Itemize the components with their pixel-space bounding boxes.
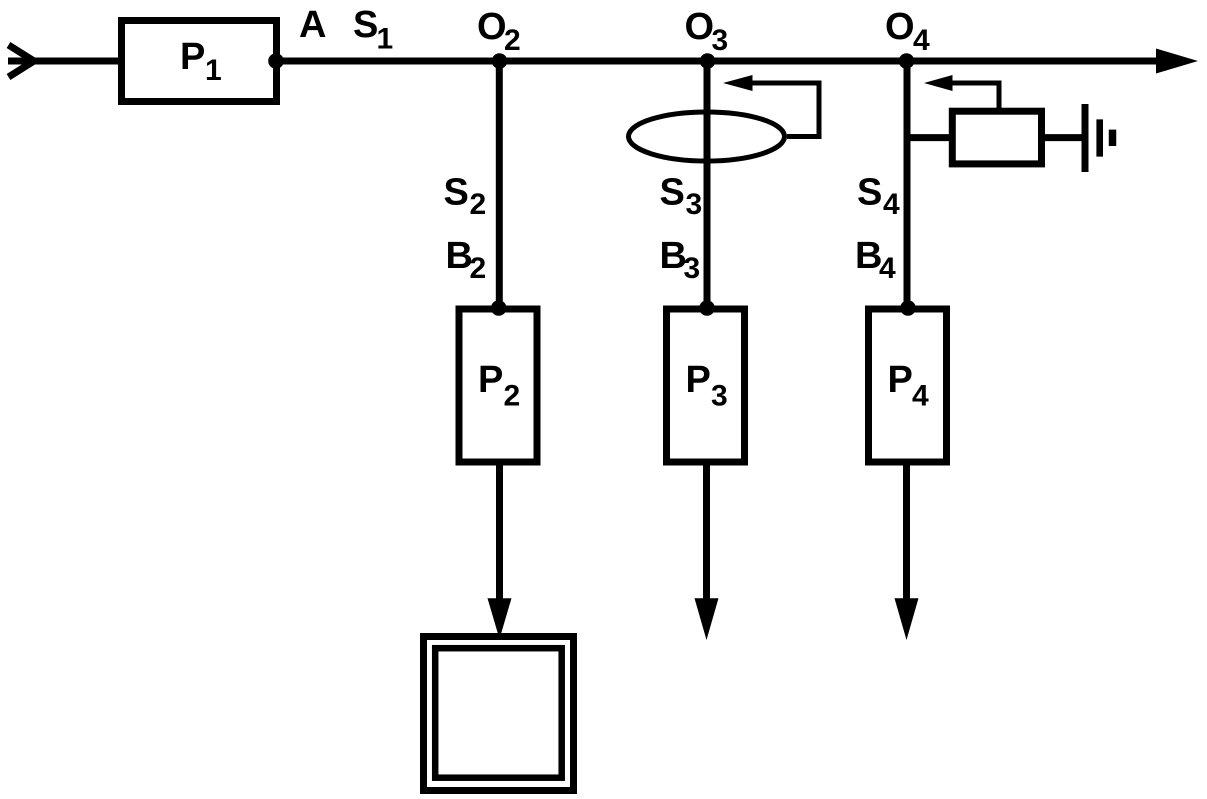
wire: vertical branch from O2 down to P2 <box>496 61 503 308</box>
wire: vertical branch from O4 down to P4 <box>904 61 911 308</box>
svg-text:3: 3 <box>712 24 729 57</box>
svg-text:P: P <box>180 36 205 78</box>
svg-text:4: 4 <box>879 252 896 285</box>
control box (regulator) at O4 <box>952 111 1041 164</box>
input arrowhead (open chevron) at left end <box>9 45 35 77</box>
ground bar 1 (tall) <box>1082 104 1089 172</box>
svg-text:P: P <box>888 359 913 401</box>
svg-text:3: 3 <box>684 252 701 285</box>
svg-text:2: 2 <box>470 188 487 221</box>
svg-text:1: 1 <box>377 23 394 56</box>
wire: line below P2 <box>496 466 503 600</box>
node B3 (dot at P3 input) <box>699 300 715 316</box>
svg-text:4: 4 <box>913 24 930 57</box>
svg-text:O: O <box>885 6 915 48</box>
node A (dot at P1 output) <box>268 53 284 69</box>
arrowhead below P2 <box>488 598 512 639</box>
sensor coil ellipse around O3 branch <box>629 112 785 161</box>
svg-text:A: A <box>299 4 326 46</box>
node B4 (dot at P4 input) <box>900 300 916 316</box>
svg-text:S: S <box>857 172 882 214</box>
box P3 <box>667 309 745 462</box>
arrowhead below P3 <box>695 598 719 640</box>
box P2 <box>459 309 537 462</box>
svg-text:S: S <box>353 4 378 46</box>
ground bar 3 (short) <box>1109 130 1117 146</box>
svg-text:S: S <box>660 172 685 214</box>
wire: main horizontal line left of P1 <box>8 58 120 65</box>
node O4 (junction dot) <box>899 53 915 69</box>
svg-text:3: 3 <box>711 380 728 413</box>
svg-text:3: 3 <box>686 188 703 221</box>
svg-text:S: S <box>444 172 469 214</box>
wire: line below P3 <box>703 466 710 600</box>
feedback wire from control box to arrow at O4 <box>953 83 1000 108</box>
svg-text:2: 2 <box>504 380 521 413</box>
svg-text:P: P <box>686 359 711 401</box>
svg-text:4: 4 <box>912 380 929 413</box>
feedback arrowhead pointing left at O4 <box>924 75 953 91</box>
ground bar 2 (middle) <box>1096 119 1103 156</box>
wire: stub from O4 branch to control box <box>907 134 952 141</box>
wire: stub from control box to ground <box>1045 134 1082 141</box>
node O3 (junction dot) <box>700 53 716 69</box>
wire: main horizontal line from P1 to right arrow <box>276 58 1160 65</box>
svg-text:O: O <box>477 6 507 48</box>
svg-text:2: 2 <box>504 24 521 57</box>
double square inner <box>435 648 562 778</box>
svg-text:2: 2 <box>470 252 487 285</box>
box P1 <box>122 21 277 102</box>
double square (output box) outer <box>424 637 574 791</box>
svg-text:P: P <box>478 359 503 401</box>
svg-text:1: 1 <box>205 54 222 87</box>
svg-text:O: O <box>685 6 715 48</box>
node O2 (junction dot) <box>492 53 508 69</box>
feedback arrowhead pointing left at O3 <box>723 75 753 91</box>
output arrowhead at right end of main line <box>1156 49 1198 74</box>
box P4 <box>869 309 947 462</box>
feedback wire from ellipse to arrow at O3 <box>753 83 820 137</box>
wire: line below P4 <box>903 466 910 600</box>
wire: vertical branch from O3 down to P3 <box>704 61 711 308</box>
svg-text:4: 4 <box>883 188 900 221</box>
arrowhead below P4 <box>895 598 919 640</box>
node B2 (dot at P2 input) <box>491 300 507 316</box>
